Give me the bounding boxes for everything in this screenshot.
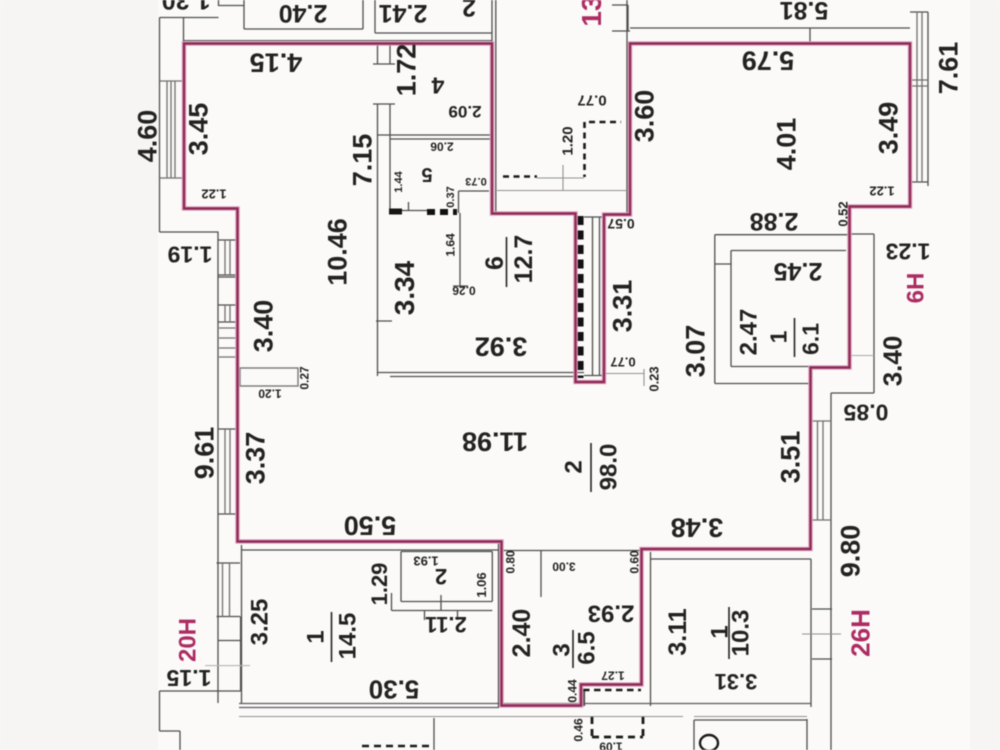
svg-text:3.31: 3.31: [715, 669, 758, 694]
svg-text:2: 2: [435, 564, 447, 589]
svg-text:2.45: 2.45: [774, 257, 823, 285]
wall room5 notch: [409, 191, 490, 213]
svg-text:3.40: 3.40: [249, 300, 279, 353]
wall top-left box 1.30: [160, 0, 245, 18]
room3 bottom jamb: [583, 689, 585, 706]
svg-text:0.77: 0.77: [610, 354, 635, 369]
svg-text:1.06: 1.06: [474, 572, 489, 597]
wall room 2.40 top: [244, 0, 363, 29]
svg-text:1.15: 1.15: [166, 665, 211, 691]
black line above top magenta left: [184, 40, 492, 42]
svg-text:3: 3: [549, 643, 576, 656]
wall right outer window column: [910, 12, 928, 186]
svg-text:4: 4: [431, 73, 444, 99]
shaft right gray step 0.23: [606, 369, 644, 386]
svg-text:5.81: 5.81: [780, 0, 829, 24]
svg-text:3.34: 3.34: [389, 260, 420, 315]
svg-text:6.5: 6.5: [574, 631, 601, 664]
wall room4 bottom double: [377, 135, 492, 139]
svg-text:3.07: 3.07: [681, 325, 711, 378]
svg-text:14.5: 14.5: [335, 613, 362, 660]
apartment boundary glow: [184, 44, 910, 706]
loggia sill thin line: [537, 165, 584, 190]
svg-text:1.93: 1.93: [413, 553, 438, 568]
svg-text:1.44: 1.44: [393, 170, 405, 192]
svg-text:5.50: 5.50: [344, 510, 397, 540]
svg-text:1.19: 1.19: [168, 242, 213, 268]
svg-text:0.44: 0.44: [565, 679, 579, 703]
svg-text:2.88: 2.88: [750, 207, 799, 235]
svg-text:3.45: 3.45: [184, 103, 214, 156]
svg-text:0.73: 0.73: [465, 175, 486, 187]
svg-text:6: 6: [481, 256, 509, 270]
bottom left lower wall: [433, 718, 435, 750]
svg-text:3.49: 3.49: [874, 102, 904, 155]
pillar 0.26: [453, 213, 468, 286]
svg-text:2.41: 2.41: [379, 0, 428, 27]
wall room6 bottom double: [377, 373, 584, 377]
svg-text:1.09: 1.09: [599, 740, 623, 750]
svg-text:1.27: 1.27: [601, 669, 625, 683]
thick wall block room5 left: [389, 209, 402, 215]
wall loggia left face: [495, 0, 497, 213]
svg-text:1.72: 1.72: [392, 44, 422, 97]
svg-text:0.46: 0.46: [571, 718, 585, 742]
door 26H jambs: [812, 609, 832, 659]
fixture 1.20x0.27: [240, 368, 298, 386]
svg-text:12.7: 12.7: [510, 235, 538, 284]
svg-text:7.61: 7.61: [934, 42, 964, 95]
svg-text:1.22: 1.22: [201, 186, 226, 201]
door jamb room4: [373, 64, 395, 104]
fixture O bottom: [700, 735, 718, 750]
svg-text:9.80: 9.80: [836, 525, 866, 578]
svg-text:0.23: 0.23: [647, 366, 662, 391]
fraction line 6/12.7: [506, 237, 508, 287]
svg-text:3.00: 3.00: [552, 560, 576, 574]
svg-text:3.60: 3.60: [630, 90, 660, 143]
svg-text:6Н: 6Н: [903, 273, 930, 304]
svg-text:4.60: 4.60: [133, 110, 163, 163]
radiator ticks left wall: [219, 328, 238, 357]
loggia bottom line: [497, 190, 627, 192]
window 1.19 ticks: [219, 240, 239, 322]
lower balcony dashes bottom left: [362, 745, 434, 748]
svg-text:5.79: 5.79: [742, 45, 795, 75]
wall room5 left inner: [376, 139, 392, 321]
svg-text:98.0: 98.0: [596, 444, 623, 491]
svg-text:2: 2: [462, 0, 476, 21]
balcony 1.09 dashed rect: [592, 717, 643, 737]
door tick 26H: [802, 633, 841, 635]
window 3.51 glass: [811, 421, 831, 520]
svg-text:3.31: 3.31: [608, 280, 638, 333]
fraction line 3/6.5: [572, 630, 574, 668]
room 14.5 walls: [242, 541, 499, 707]
fraction line 1/6.1: [794, 318, 796, 357]
svg-text:0.85: 0.85: [843, 400, 888, 426]
apartment boundary magenta line: [184, 44, 910, 706]
svg-text:2.93: 2.93: [588, 599, 635, 626]
svg-text:0.60: 0.60: [627, 550, 641, 574]
svg-text:3.40: 3.40: [877, 336, 907, 387]
svg-text:3.51: 3.51: [776, 431, 806, 484]
fraction line 1/10.3: [728, 607, 730, 659]
svg-text:2.47: 2.47: [736, 309, 763, 356]
svg-text:1: 1: [765, 330, 791, 343]
svg-text:2.09: 2.09: [448, 102, 481, 121]
svg-text:1.20: 1.20: [559, 126, 576, 155]
window 20H glass: [223, 563, 230, 617]
svg-text:1.64: 1.64: [443, 233, 457, 257]
room2 small box: [392, 552, 493, 621]
fraction line 2/98.0: [590, 443, 592, 492]
svg-text:0.57: 0.57: [607, 216, 634, 232]
window 1.19 glass: [225, 240, 230, 322]
bathroom inner walls: [715, 251, 846, 367]
svg-text:3.11: 3.11: [664, 608, 692, 655]
room3 balcony door dashes: [583, 689, 641, 692]
svg-text:0.27: 0.27: [297, 366, 311, 390]
svg-text:0.77: 0.77: [577, 92, 606, 109]
thick dashed wall room5/6: [427, 209, 457, 215]
svg-text:3.48: 3.48: [671, 512, 724, 542]
svg-text:20Н: 20Н: [175, 618, 202, 662]
svg-text:3.37: 3.37: [241, 432, 271, 485]
window 9.61 glass: [225, 429, 230, 514]
svg-text:1.23: 1.23: [886, 239, 931, 265]
svg-text:11.98: 11.98: [462, 426, 528, 456]
building bottom line: [239, 716, 807, 718]
svg-text:2.11: 2.11: [425, 612, 467, 637]
svg-text:1.30: 1.30: [162, 0, 211, 14]
window 20H room1: [217, 563, 241, 617]
tick right wall 3.40: [848, 355, 874, 357]
svg-text:5: 5: [421, 163, 432, 185]
svg-text:0.37: 0.37: [445, 186, 457, 207]
svg-text:3.92: 3.92: [475, 331, 528, 361]
window 4.60 upper-left: [160, 81, 185, 178]
bottom left step walls: [160, 232, 241, 750]
loggia window dashes: [503, 122, 621, 177]
svg-text:26Н: 26Н: [845, 609, 875, 657]
svg-text:4.15: 4.15: [250, 47, 303, 77]
wall right step 1.23: [831, 234, 874, 750]
svg-text:10.46: 10.46: [323, 218, 353, 286]
window 9.61: [219, 429, 239, 514]
svg-text:1.20: 1.20: [258, 387, 282, 401]
wall 5.81 top right: [630, 28, 910, 43]
wall left outer upper: [160, 18, 219, 233]
svg-text:13: 13: [576, 0, 607, 27]
wall loggia right face: [612, 0, 630, 213]
svg-text:1: 1: [303, 630, 330, 643]
svg-text:0.80: 0.80: [503, 550, 517, 574]
window 7.61 glass lines: [911, 12, 928, 182]
bottom long double wall: [239, 704, 811, 708]
svg-text:2: 2: [561, 460, 588, 473]
room3 top wall black: [502, 551, 642, 598]
svg-text:7.15: 7.15: [348, 134, 378, 187]
svg-text:0.52: 0.52: [836, 201, 851, 226]
svg-text:1.22: 1.22: [869, 183, 894, 198]
wall top room4 left double: [378, 43, 391, 376]
svg-text:5.30: 5.30: [369, 675, 420, 705]
thick dashed duct bar: [576, 216, 584, 378]
dim line 1.15: [205, 665, 250, 667]
svg-text:10.3: 10.3: [728, 610, 755, 657]
room 10.3 walls: [651, 552, 812, 707]
wall room5 bottom thin: [402, 210, 427, 212]
svg-text:4.01: 4.01: [772, 118, 802, 171]
svg-text:0.26: 0.26: [452, 284, 476, 298]
bottom small room O: [694, 719, 807, 750]
svg-text:2.40: 2.40: [279, 0, 328, 27]
svg-text:9.61: 9.61: [190, 427, 220, 480]
wall room 2.41 top: [375, 0, 492, 43]
bathroom outer walls: [715, 235, 848, 384]
svg-text:1.29: 1.29: [367, 563, 392, 606]
svg-text:2.40: 2.40: [508, 609, 536, 658]
svg-text:3.25: 3.25: [247, 599, 274, 646]
svg-text:6.1: 6.1: [797, 323, 823, 355]
fraction line 1/14.5: [331, 612, 333, 662]
shaft channel: [584, 217, 604, 376]
svg-text:2.06: 2.06: [430, 140, 454, 154]
